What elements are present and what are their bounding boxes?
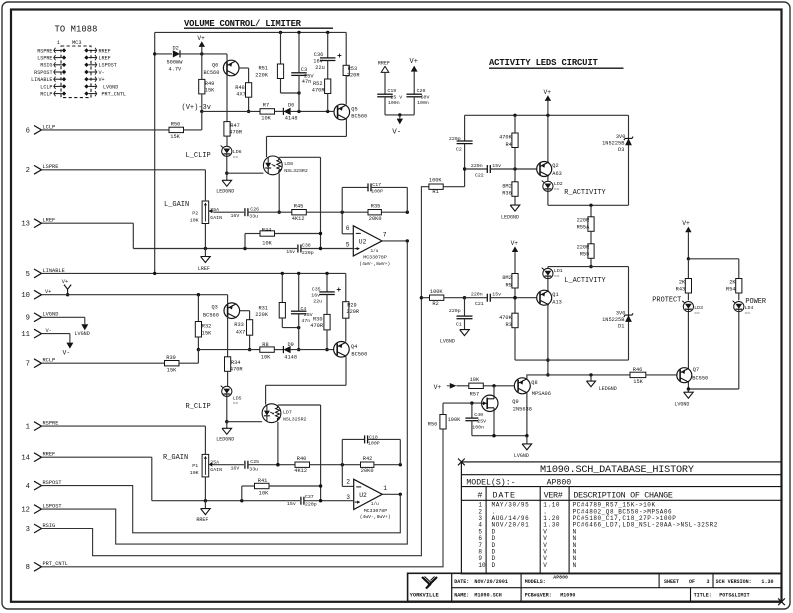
svg-text:R34: R34 (231, 360, 241, 366)
svg-text:R54: R54 (726, 287, 736, 293)
svg-text:V+: V+ (434, 384, 442, 391)
svg-text:R45: R45 (294, 204, 304, 210)
svg-text:R36: R36 (502, 191, 512, 197)
svg-text:C4: C4 (301, 306, 307, 312)
svg-text:100P: 100P (371, 189, 383, 195)
svg-text:16v: 16v (311, 293, 320, 299)
svg-text:C36: C36 (314, 52, 324, 58)
svg-text:V-: V- (392, 128, 401, 136)
svg-text:2K: 2K (729, 279, 736, 285)
svg-text:7: 7 (383, 232, 387, 239)
svg-text:1/u: 1/u (371, 249, 379, 254)
svg-text:R51: R51 (258, 66, 268, 72)
svg-text:47n: 47n (301, 318, 310, 324)
svg-text:BC550: BC550 (692, 376, 708, 382)
svg-text:470R: 470R (229, 129, 243, 135)
svg-text:R40: R40 (297, 456, 307, 462)
svg-text:Q7: Q7 (693, 367, 699, 373)
svg-text:LEDGND: LEDGND (599, 386, 617, 392)
svg-text:R8: R8 (262, 342, 268, 348)
svg-text:3: 3 (26, 526, 30, 534)
svg-text:NSL32SR2: NSL32SR2 (283, 416, 307, 422)
svg-text:A13: A13 (552, 300, 562, 306)
svg-text:DESCRIPTION OF CHANGE: DESCRIPTION OF CHANGE (573, 490, 673, 500)
svg-text:R50: R50 (171, 121, 181, 127)
svg-text:LD3: LD3 (694, 305, 703, 311)
svg-text:Q2: Q2 (552, 163, 558, 169)
svg-text:Q4: Q4 (351, 344, 357, 350)
svg-text:220n: 220n (471, 291, 483, 297)
svg-text:RREF: RREF (196, 517, 208, 523)
svg-text:R2: R2 (432, 301, 438, 307)
svg-text:V+: V+ (682, 220, 690, 227)
svg-text:R56: R56 (428, 422, 438, 428)
svg-text:LD2: LD2 (554, 181, 563, 187)
svg-text:Q1: Q1 (552, 292, 558, 298)
svg-text:RSPOST: RSPOST (34, 70, 52, 76)
svg-text:2N5638: 2N5638 (513, 406, 532, 412)
svg-text:R46: R46 (633, 367, 643, 373)
svg-text:10K: 10K (259, 491, 269, 497)
svg-text:LD5: LD5 (233, 395, 242, 401)
svg-text:LCLP: LCLP (40, 84, 52, 90)
svg-text:22u: 22u (315, 65, 325, 71)
svg-text:V+: V+ (511, 240, 519, 247)
svg-text:AP800: AP800 (553, 574, 568, 580)
svg-text:1N5225B: 1N5225B (602, 140, 624, 146)
svg-text:N: N (573, 562, 577, 569)
svg-text:220K: 220K (255, 312, 269, 318)
svg-text:R30: R30 (313, 316, 323, 322)
svg-text:L_ACTIVITY: L_ACTIVITY (564, 277, 606, 285)
svg-text:LVGND: LVGND (75, 331, 90, 337)
svg-text:R44: R44 (262, 227, 272, 233)
svg-text:100n: 100n (417, 100, 429, 106)
svg-text:LD1: LD1 (554, 268, 563, 274)
svg-text:220p: 220p (305, 502, 317, 508)
svg-text:C18: C18 (369, 434, 378, 440)
svg-text:100P: 100P (368, 441, 380, 447)
svg-text:V+: V+ (410, 58, 418, 66)
svg-text:V: V (543, 562, 547, 569)
svg-text:V+: V+ (62, 279, 68, 285)
svg-text:LD6: LD6 (233, 149, 242, 155)
svg-text:20K0: 20K0 (361, 468, 374, 474)
svg-text:L_GAIN: L_GAIN (164, 201, 189, 209)
svg-text:15K: 15K (167, 368, 177, 374)
svg-text:10: 10 (21, 292, 30, 300)
svg-text:220R: 220R (346, 309, 360, 315)
svg-text:VOLUME CONTROL/ LIMITER: VOLUME CONTROL/ LIMITER (184, 19, 302, 29)
svg-text:R1: R1 (432, 189, 438, 195)
svg-text:TITLE:: TITLE: (694, 593, 712, 599)
svg-text:C1: C1 (456, 321, 462, 327)
svg-text:20K0: 20K0 (369, 216, 382, 222)
svg-text:10K: 10K (262, 240, 272, 246)
svg-text:L_CLIP: L_CLIP (186, 152, 211, 160)
svg-text:GAIN: GAIN (210, 467, 222, 473)
svg-text:D9: D9 (288, 342, 294, 348)
svg-text:M1090.SCH: M1090.SCH (474, 593, 501, 599)
svg-text:R43: R43 (676, 287, 686, 293)
svg-text:1: 1 (383, 485, 387, 492)
svg-text:NOV/20/2001: NOV/20/2001 (474, 579, 508, 585)
svg-text:LREF: LREF (99, 56, 111, 62)
svg-text:R57: R57 (470, 391, 480, 397)
svg-text:220n: 220n (471, 163, 483, 169)
svg-text:LD7: LD7 (283, 410, 292, 416)
svg-text:500mW: 500mW (167, 59, 184, 65)
svg-text:4X7: 4X7 (236, 329, 246, 335)
svg-text:16V: 16V (231, 465, 240, 471)
svg-text:Q8: Q8 (531, 380, 537, 386)
svg-text:PC#6466_LD7,LD8_NSL-28AA->NSL-: PC#6466_LD7,LD8_NSL-28AA->NSL-32SR2 (573, 522, 718, 529)
svg-text:R32: R32 (202, 324, 212, 330)
svg-text:LVGND: LVGND (440, 339, 455, 345)
svg-text:220p: 220p (449, 136, 461, 142)
svg-text:MC33078P: MC33078P (363, 255, 387, 261)
svg-text:33u: 33u (249, 214, 258, 220)
svg-text:3V0: 3V0 (616, 134, 626, 140)
svg-text:10K: 10K (190, 218, 199, 224)
svg-text:100K: 100K (448, 417, 462, 423)
svg-text:M1090: M1090 (560, 593, 575, 599)
svg-text:10K: 10K (261, 354, 271, 360)
svg-text:V+: V+ (99, 77, 105, 83)
svg-text:R5: R5 (505, 282, 511, 288)
svg-text:POWER: POWER (745, 298, 766, 306)
svg-text:9: 9 (26, 315, 30, 323)
svg-text:15K: 15K (170, 134, 180, 140)
svg-text:Q3: Q3 (212, 305, 218, 311)
svg-text:U2: U2 (359, 492, 367, 499)
svg-text:LD8: LD8 (284, 161, 293, 167)
svg-text:C17: C17 (372, 182, 381, 188)
svg-text:33u: 33u (249, 466, 258, 472)
svg-text:22u: 22u (313, 299, 322, 305)
svg-text:1N5225B: 1N5225B (602, 317, 624, 323)
svg-text:14: 14 (21, 455, 30, 463)
svg-text:15K: 15K (205, 87, 215, 93)
svg-text:BC560: BC560 (203, 312, 219, 318)
svg-text:R33: R33 (234, 322, 244, 328)
svg-text:RREF: RREF (99, 48, 111, 54)
svg-text:5: 5 (26, 271, 30, 279)
svg-text:LVGND: LVGND (674, 401, 689, 407)
svg-text:470R: 470R (230, 367, 244, 373)
svg-text:R3: R3 (505, 322, 511, 328)
svg-text:R29: R29 (347, 303, 357, 309)
svg-text:==: == (233, 402, 239, 407)
svg-text:16V: 16V (231, 213, 240, 219)
svg-text:NOV/20/01: NOV/20/01 (492, 522, 530, 529)
svg-text:C3: C3 (301, 67, 307, 73)
svg-text:220R: 220R (577, 217, 591, 223)
svg-text:P1: P1 (192, 463, 198, 469)
svg-text:R_ACTIVITY: R_ACTIVITY (564, 189, 606, 197)
svg-text:100n: 100n (388, 100, 400, 106)
svg-text:4: 4 (26, 483, 30, 491)
svg-text:6: 6 (26, 127, 30, 135)
svg-text:3V0: 3V0 (616, 311, 626, 317)
svg-text:BC560: BC560 (204, 70, 220, 76)
svg-text:15K: 15K (633, 379, 643, 385)
svg-text:MODEL(S):-: MODEL(S):- (466, 477, 515, 487)
svg-text:10K: 10K (470, 377, 480, 383)
svg-text:15v: 15v (492, 163, 501, 169)
svg-text:10K: 10K (261, 116, 271, 122)
svg-text:4X7: 4X7 (236, 92, 246, 98)
svg-text:==: == (694, 311, 700, 316)
svg-text:==: == (745, 311, 751, 316)
svg-text:1: 1 (26, 424, 30, 432)
svg-text:2K: 2K (679, 279, 686, 285)
svg-text:15v: 15v (286, 249, 295, 255)
svg-text:LREF: LREF (198, 266, 210, 272)
svg-text:6: 6 (346, 225, 350, 232)
svg-text:VER#: VER# (544, 490, 563, 500)
svg-text:100K: 100K (430, 289, 444, 295)
svg-text:DATE: DATE (493, 490, 516, 500)
svg-text:2: 2 (26, 167, 30, 175)
svg-text:DATE:: DATE: (454, 579, 469, 585)
svg-text:4K12: 4K12 (292, 216, 305, 222)
svg-text:M1090.SCH_DATABASE_HISTORY: M1090.SCH_DATABASE_HISTORY (540, 465, 694, 476)
svg-text:R42: R42 (363, 456, 373, 462)
svg-text:8M2: 8M2 (502, 275, 512, 281)
svg-text:(4wV-,8wV+): (4wV-,8wV+) (360, 514, 391, 520)
svg-text:R55A: R55A (577, 224, 591, 230)
svg-text:U2: U2 (359, 239, 367, 246)
svg-text:R41: R41 (258, 478, 268, 484)
svg-text:15K: 15K (202, 330, 212, 336)
svg-text:100n: 100n (472, 425, 484, 431)
svg-text:#: # (477, 490, 482, 500)
svg-text:LSPOST: LSPOST (99, 63, 117, 69)
svg-text:C37: C37 (305, 494, 314, 500)
svg-text:==: == (554, 274, 560, 279)
svg-text:RSPRE: RSPRE (37, 48, 52, 54)
svg-text:25V: 25V (477, 418, 486, 424)
svg-text:LVGND: LVGND (514, 453, 529, 459)
svg-text:D1: D1 (618, 324, 624, 330)
svg-text:RREF: RREF (378, 61, 390, 67)
svg-text:8M2: 8M2 (502, 184, 512, 190)
svg-text:220R: 220R (347, 73, 361, 79)
svg-text:ACTIVITY LEDS CIRCUIT: ACTIVITY LEDS CIRCUIT (489, 58, 599, 68)
svg-text:R_CLIP: R_CLIP (186, 403, 211, 411)
svg-text:C40: C40 (474, 412, 483, 418)
svg-text:D3: D3 (618, 147, 624, 153)
svg-text:V+: V+ (544, 89, 552, 96)
svg-text:P2: P2 (192, 211, 198, 217)
svg-text:RSIG: RSIG (40, 63, 52, 69)
svg-text:R_GAIN: R_GAIN (163, 454, 188, 462)
svg-text:RCLP: RCLP (40, 92, 52, 98)
svg-text:16v: 16v (313, 59, 323, 65)
svg-text:11: 11 (21, 331, 30, 339)
svg-text:8: 8 (26, 564, 30, 572)
svg-text:SCH VERSION:: SCH VERSION: (716, 579, 752, 585)
svg-text:LEDGND: LEDGND (501, 215, 519, 221)
svg-text:(4wV-,8wV+): (4wV-,8wV+) (359, 261, 390, 267)
svg-text:4148: 4148 (285, 116, 298, 122)
svg-text:R7: R7 (263, 102, 269, 108)
svg-text:4K12: 4K12 (294, 468, 307, 474)
svg-text:D2: D2 (173, 46, 179, 52)
svg-text:R4: R4 (505, 142, 511, 148)
svg-text:R47: R47 (230, 123, 240, 129)
svg-text:5: 5 (346, 241, 350, 248)
svg-text:C21: C21 (475, 301, 484, 307)
svg-text:YORKVILLE: YORKVILLE (410, 593, 440, 599)
svg-text:BC560: BC560 (351, 114, 367, 120)
svg-text:100K: 100K (429, 178, 443, 184)
svg-text:PROTECT: PROTECT (652, 297, 681, 305)
svg-text:3: 3 (346, 494, 350, 501)
svg-text:470K: 470K (499, 315, 513, 321)
svg-text:TO M1088: TO M1088 (55, 25, 98, 35)
svg-text:10: 10 (478, 562, 486, 569)
svg-text:R55: R55 (580, 251, 590, 257)
svg-text:R31: R31 (258, 306, 268, 312)
svg-text:C19: C19 (387, 88, 396, 94)
svg-text:D: D (492, 562, 496, 569)
svg-text:GAIN: GAIN (210, 215, 222, 221)
svg-text:10K: 10K (190, 470, 199, 476)
svg-text:1: 1 (57, 40, 60, 46)
svg-text:D6: D6 (288, 102, 294, 108)
svg-text:MPSA06: MPSA06 (532, 391, 551, 397)
svg-text:Q9: Q9 (512, 399, 518, 405)
svg-text:MC33078P: MC33078P (364, 508, 388, 514)
svg-text:C2: C2 (456, 147, 462, 153)
svg-text:C35: C35 (312, 287, 321, 293)
svg-text:AP800: AP800 (547, 478, 572, 487)
svg-text:V-: V- (63, 350, 71, 357)
svg-text:==: == (554, 187, 560, 192)
svg-text:(V+)-3v: (V+)-3v (182, 104, 211, 112)
svg-text:R49: R49 (205, 81, 215, 87)
svg-text:LSPRE: LSPRE (37, 56, 52, 62)
svg-text:15v: 15v (287, 501, 296, 507)
svg-text:4.7V: 4.7V (169, 66, 183, 72)
svg-text:LINABLE: LINABLE (31, 77, 52, 83)
svg-text:1/u: 1/u (371, 502, 379, 507)
svg-text:50V: 50V (421, 94, 430, 100)
svg-text:Q6: Q6 (212, 62, 218, 68)
svg-text:MAY/30/95: MAY/30/95 (492, 502, 530, 509)
svg-text:220K: 220K (255, 72, 269, 78)
svg-text:470R: 470R (310, 323, 324, 329)
svg-text:15v: 15v (492, 291, 501, 297)
svg-text:NSL32SR2: NSL32SR2 (284, 168, 308, 174)
svg-text:R39: R39 (166, 355, 176, 361)
svg-text:POTS&LIMIT: POTS&LIMIT (719, 593, 750, 599)
svg-text:SHEET: SHEET (664, 579, 679, 585)
svg-text:C22: C22 (475, 172, 484, 178)
svg-text:13: 13 (21, 221, 30, 229)
svg-text:==: == (233, 155, 239, 160)
svg-text:V+: V+ (197, 35, 205, 42)
svg-text:3: 3 (706, 579, 709, 585)
svg-text:BC560: BC560 (351, 351, 367, 357)
svg-text:2: 2 (346, 479, 350, 486)
svg-text:4148: 4148 (284, 354, 297, 360)
svg-text:R52: R52 (313, 81, 323, 87)
svg-text:PRT_CNTL: PRT_CNTL (102, 92, 126, 98)
svg-text:R35: R35 (371, 204, 381, 210)
svg-text:25 V: 25 V (390, 94, 402, 100)
svg-text:MODELS:: MODELS: (525, 579, 546, 585)
svg-text:LVGND: LVGND (103, 84, 118, 90)
svg-text:C38: C38 (302, 242, 311, 248)
svg-text:NAME:: NAME: (454, 593, 469, 599)
svg-text:470K: 470K (499, 135, 513, 141)
svg-text:PCB#&VER:: PCB#&VER: (525, 593, 552, 599)
svg-text:220R: 220R (577, 244, 591, 250)
svg-text:7: 7 (26, 361, 30, 369)
svg-text:12: 12 (21, 507, 30, 515)
svg-text:220p: 220p (449, 308, 461, 314)
svg-text:MC3: MC3 (72, 40, 82, 46)
svg-text:220p: 220p (302, 250, 314, 256)
svg-text:470R: 470R (312, 88, 326, 94)
svg-text:Q5: Q5 (351, 107, 357, 113)
svg-text:V-: V- (99, 70, 105, 76)
svg-text:A63: A63 (552, 171, 562, 177)
svg-text:LEDGND: LEDGND (216, 189, 234, 195)
svg-text:OF: OF (689, 579, 695, 585)
svg-text:C20: C20 (417, 88, 426, 94)
svg-text:1.30: 1.30 (761, 579, 773, 585)
svg-text:LEDGND: LEDGND (216, 437, 234, 443)
svg-text:R53: R53 (348, 66, 358, 72)
svg-text:25V: 25V (304, 312, 313, 318)
svg-text:47n: 47n (302, 79, 312, 85)
svg-text:R48: R48 (235, 85, 245, 91)
